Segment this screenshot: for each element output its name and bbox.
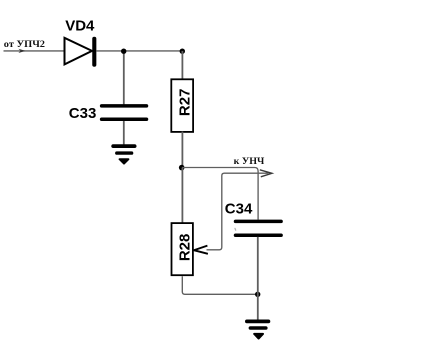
- svg-text:C34: C34: [225, 200, 253, 217]
- junction node 3: [179, 165, 185, 171]
- junction node 2: [180, 49, 185, 54]
- junction node 1: [121, 49, 126, 54]
- wire R27 to node 3: [181, 132, 183, 168]
- ground symbol (C33) bar 2: [117, 151, 132, 154]
- wire R28 bottom to node 4: [182, 276, 257, 294]
- capacitor C33 top plate: [102, 104, 147, 108]
- capacitor C34 bottom plate: [236, 233, 282, 237]
- wire C34 bottom through node 4 to ground: [257, 237, 259, 320]
- ground symbol (bottom) triangle: [254, 334, 263, 339]
- resistor R28 body: [172, 223, 193, 275]
- ground symbol (C33) triangle: [120, 159, 129, 163]
- ground symbol (C33) bar 1: [113, 144, 134, 148]
- ground symbol (bottom) bar 2: [250, 326, 265, 330]
- stray mark near C34 left plate: [234, 228, 237, 230]
- output open arrowhead к УНЧ: [260, 170, 272, 177]
- wire node 3 to C34 top: [182, 168, 258, 220]
- wire input from от УПЧ2: [4, 50, 65, 52]
- potentiometer wiper arrow: [194, 246, 208, 254]
- capacitor C33 bottom plate: [102, 118, 147, 122]
- resistor R27 body: [171, 79, 193, 132]
- diode VD4 cathode bar: [92, 39, 96, 65]
- capacitor C34 top plate: [236, 220, 282, 224]
- wire node 2 to R27: [181, 51, 183, 80]
- signal direction arrow: [18, 49, 25, 53]
- wire node 3 to R28: [181, 168, 183, 224]
- svg-text:к УНЧ: к УНЧ: [234, 156, 265, 166]
- wire wiper to output к УНЧ: [207, 173, 269, 250]
- wire diode to node 2: [96, 50, 183, 52]
- svg-text:VD4: VD4: [65, 17, 95, 34]
- junction node 4: [255, 292, 260, 297]
- svg-text:R28: R28: [177, 234, 194, 262]
- ground symbol (bottom) bar 1: [247, 319, 269, 323]
- svg-text:от УПЧ2: от УПЧ2: [4, 39, 46, 49]
- wire C33 to ground: [123, 121, 125, 145]
- svg-text:C33: C33: [69, 105, 97, 122]
- diode VD4: [65, 38, 93, 65]
- wire node 1 down to C33: [123, 51, 125, 105]
- svg-text:R27: R27: [177, 89, 194, 117]
